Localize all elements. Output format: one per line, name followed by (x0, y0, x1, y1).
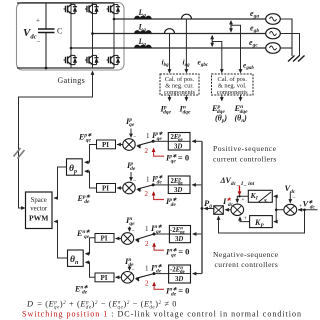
ground (288, 56, 305, 62)
source e_gc (266, 43, 281, 54)
svg-text:egab: egab (243, 61, 254, 72)
svg-text:KI: KI (250, 191, 259, 202)
svg-text:−: − (37, 38, 41, 46)
svg-text:−: − (132, 268, 136, 274)
inverter leg 1 wire (70, 3, 72, 68)
svg-text:Gatings: Gatings (58, 76, 86, 85)
svg-text:En∗qe: En∗qe (76, 229, 90, 240)
svg-text:vector: vector (30, 206, 48, 213)
svg-text:In∗qe: In∗qe (150, 223, 162, 235)
source e_ga (266, 14, 281, 25)
svg-text:Ipde: Ipde (126, 160, 136, 172)
svg-text:In∗de: In∗de (150, 263, 162, 275)
wire i_ag measurement (185, 19, 189, 74)
switch row2 blade (136, 183, 155, 192)
svg-text:3D: 3D (174, 144, 182, 151)
inverter leg 3 wire (113, 3, 115, 68)
wire gating feedback (19, 72, 93, 208)
wire V star dc feedback to multiplier (217, 209, 306, 234)
svg-text:−: − (293, 195, 297, 201)
block Space vector PWM U1 (26, 192, 53, 229)
block 2Epqe over 3D (168, 133, 190, 151)
svg-text:θp: θp (69, 164, 77, 175)
wire bus to block4 (192, 272, 202, 276)
wire block2 to switch row2 (153, 184, 168, 186)
switch row3 blade (134, 233, 155, 243)
wire multiplier to P0 bus (204, 207, 214, 211)
block KP (250, 216, 273, 229)
svg-text:components: components (217, 89, 248, 96)
svg-text:Lg: Lg (138, 22, 147, 33)
svg-text:+: + (36, 17, 40, 25)
wire sum4 to PI4 (115, 275, 121, 279)
block Cal of pos and neg voltage components (212, 74, 254, 96)
svg-text:Indqe: Indqe (179, 104, 191, 116)
wire block1 to switch row1 (153, 140, 168, 142)
wire PI1 to theta p (84, 145, 96, 165)
wire bus to block1 (192, 139, 203, 143)
phase b line wire (93, 33, 267, 35)
svg-text:Ipqe: Ipqe (125, 116, 135, 128)
wire error to KI (273, 194, 284, 209)
svg-text:Ep∗de: Ep∗de (77, 194, 91, 205)
block PI 1 (97, 140, 116, 149)
svg-text:PI: PI (102, 141, 109, 149)
converter enclosure frame (17, 3, 125, 71)
phase a line wire (114, 18, 266, 20)
svg-text:θn: θn (70, 255, 79, 266)
svg-text:1: 1 (145, 225, 149, 233)
node phase b tap (91, 32, 94, 35)
wire PI2 to theta p (84, 169, 96, 188)
wire block4 to switch row4 (154, 273, 169, 275)
switch row4 blade (134, 272, 155, 281)
svg-text:2: 2 (145, 147, 149, 155)
wire sum1 to PI1 (117, 143, 123, 147)
label Negative-sequence current controllers (213, 250, 279, 269)
wire theta p to PWM (54, 167, 67, 200)
svg-text:PI: PI (101, 274, 108, 282)
wire sum2 to PI2 (117, 186, 123, 190)
node: dc bus negative junction (45, 67, 48, 70)
svg-text:ibg: ibg (162, 58, 170, 69)
bus slash marks (14, 148, 25, 159)
phase c line wire (71, 47, 266, 49)
wire KP to sum dc (238, 216, 250, 221)
wire I p de into sum2 (129, 172, 133, 182)
svg-text:ega: ega (250, 9, 259, 20)
block 2Epde over 3D (168, 176, 190, 194)
svg-text:Lg: Lg (138, 37, 147, 48)
svg-text:PI: PI (102, 185, 109, 193)
wire output I p dqe (168, 95, 172, 102)
svg-text:In∗qe= 0: In∗qe= 0 (165, 247, 189, 259)
node P0 distribution bus (201, 141, 203, 273)
svg-text:Switching position 1 : DC-link: Switching position 1 : DC-link voltage c… (22, 310, 302, 319)
wire bus to block3 (192, 232, 202, 236)
svg-text:Ip∗de: Ip∗de (165, 196, 177, 208)
source e_gb (266, 28, 281, 39)
svg-text:(θp): (θp) (215, 114, 227, 125)
voltage probe e_gbc double arrow (210, 35, 214, 47)
block PI 2 (97, 184, 116, 193)
capacitor C plates (38, 29, 55, 33)
wire block3 to switch row3 (154, 233, 169, 235)
summing junction row2 (123, 182, 135, 194)
block Cal of pos and neg current components (160, 74, 199, 96)
block PI 3 (95, 234, 114, 243)
IGBT Q5 (107, 4, 121, 13)
wire error to KP (273, 209, 277, 224)
svg-text:−: − (133, 135, 137, 141)
svg-text:PI: PI (101, 235, 108, 243)
multiplier box (214, 206, 224, 215)
wire e_gbc measurement (212, 42, 224, 74)
wire output I n dqe (185, 95, 189, 102)
svg-text:3D: 3D (174, 187, 182, 194)
svg-text:Ep∗qe: Ep∗qe (78, 133, 92, 144)
dc bus top rail (17, 2, 114, 4)
svg-text:PWM: PWM (29, 214, 48, 223)
wire source neutral b (280, 34, 299, 57)
node P0 junction (201, 207, 204, 210)
gating arrow into bridge (91, 71, 95, 75)
svg-text:1: 1 (145, 265, 149, 273)
svg-text:En∗de: En∗de (74, 285, 88, 296)
summing junction row4 (121, 272, 133, 284)
svg-text:Ip∗qe= 0: Ip∗qe= 0 (165, 153, 189, 165)
summing junction V dc (284, 204, 297, 215)
node KI injection junction (238, 195, 240, 197)
wire delta V injection red arrow (238, 186, 242, 196)
svg-text:3D: 3D (175, 276, 183, 283)
wire I n de into sum4 (128, 266, 132, 272)
svg-text:1: 1 (146, 176, 150, 184)
svg-text:Inqe: Inqe (125, 215, 135, 227)
wire bus to block2 (192, 183, 203, 187)
block theta n transform (68, 250, 84, 266)
IGBT Q6 (85, 55, 99, 64)
dc bus bottom rail (17, 67, 114, 69)
label Positive-sequence current controllers (213, 144, 277, 164)
summing junction row1 (123, 139, 135, 151)
inductor L_g phase a (135, 16, 152, 19)
node phase c tap (70, 47, 73, 50)
wire I p qe into sum1 (129, 129, 133, 139)
svg-text:s: s (263, 197, 267, 205)
IGBT Q3 (85, 4, 99, 13)
svg-text:egbc: egbc (198, 58, 209, 69)
block PI 4 (95, 273, 114, 282)
svg-text:Negative-sequence: Negative-sequence (213, 250, 279, 259)
inductor L_g phase b (135, 31, 152, 34)
block minus 2Enqe over 3D (169, 226, 190, 244)
wire KI to sum dc (235, 196, 248, 203)
wire V dc into sum (288, 193, 292, 204)
IGBT Q2 (107, 55, 121, 64)
svg-text:components: components (164, 89, 195, 96)
capacitor C branch wire (45, 3, 47, 68)
inductor L_g phase c (135, 45, 152, 48)
svg-text:egc: egc (249, 38, 258, 49)
switch row3 position 2 contact (152, 242, 164, 250)
svg-text:Ipdqe: Ipdqe (160, 104, 172, 116)
current sensor hump phase a (182, 14, 192, 19)
svg-text:3D: 3D (175, 236, 183, 243)
svg-text:egb: egb (250, 24, 259, 35)
wire theta n to PWM (54, 220, 68, 258)
svg-text:+: + (241, 197, 245, 203)
current sensor hump phase b (165, 29, 175, 34)
svg-text:Positive-sequence: Positive-sequence (213, 144, 277, 153)
wire output E n dqe (239, 95, 243, 102)
wire e_gab measurement (231, 25, 242, 73)
svg-text:2: 2 (145, 240, 149, 248)
switch row4 position 2 contact (152, 282, 164, 290)
svg-text:1: 1 (146, 132, 150, 140)
node phase a tap (113, 18, 116, 21)
gating arrow into PWM (21, 206, 25, 210)
svg-text:2: 2 (145, 280, 149, 288)
wire i_bg measurement (168, 34, 172, 74)
switch row1 position 2 contact (152, 148, 164, 157)
svg-text:In∗de= 0: In∗de= 0 (165, 286, 189, 298)
wire output E p dqe (220, 95, 224, 102)
svg-text:Vdc: Vdc (23, 27, 37, 41)
wire I n qe into sum3 (128, 227, 132, 233)
svg-text:(θn): (θn) (235, 114, 248, 125)
wire V star dc into sum (298, 208, 318, 212)
block theta p transform (67, 159, 83, 175)
switch row2 position 2 contact (152, 191, 164, 199)
svg-text:−: − (133, 178, 137, 184)
svg-text:current controllers: current controllers (215, 260, 279, 269)
voltage probe e_gab double arrow (229, 20, 233, 33)
wire PI3 to theta n (85, 238, 95, 256)
svg-text:Space: Space (31, 197, 47, 204)
inverter leg 2 wire (92, 3, 94, 68)
svg-text:−: − (132, 229, 136, 235)
block minus 2Ende over 3D (169, 265, 191, 283)
switch row1 blade (136, 140, 155, 149)
svg-text:C: C (57, 27, 62, 36)
svg-text:2: 2 (145, 190, 149, 198)
wire source neutral c (280, 47, 292, 49)
wire PI4 to theta n (85, 260, 95, 277)
wire sum dc to multiplier (225, 208, 232, 212)
svg-text:Lg: Lg (138, 8, 147, 19)
block KI over s (248, 190, 272, 204)
svg-text:current controllers: current controllers (213, 155, 277, 164)
wire sum3 to PI3 (115, 237, 121, 241)
summing junction row3 (121, 233, 133, 245)
wire source neutral a (280, 19, 292, 56)
svg-text:ΔVdc _ I _ int: ΔVdc _ I _ int (220, 176, 255, 187)
IGBT Q1 (64, 4, 78, 13)
summing junction dc-link (231, 204, 244, 215)
IGBT Q4 (64, 55, 78, 64)
